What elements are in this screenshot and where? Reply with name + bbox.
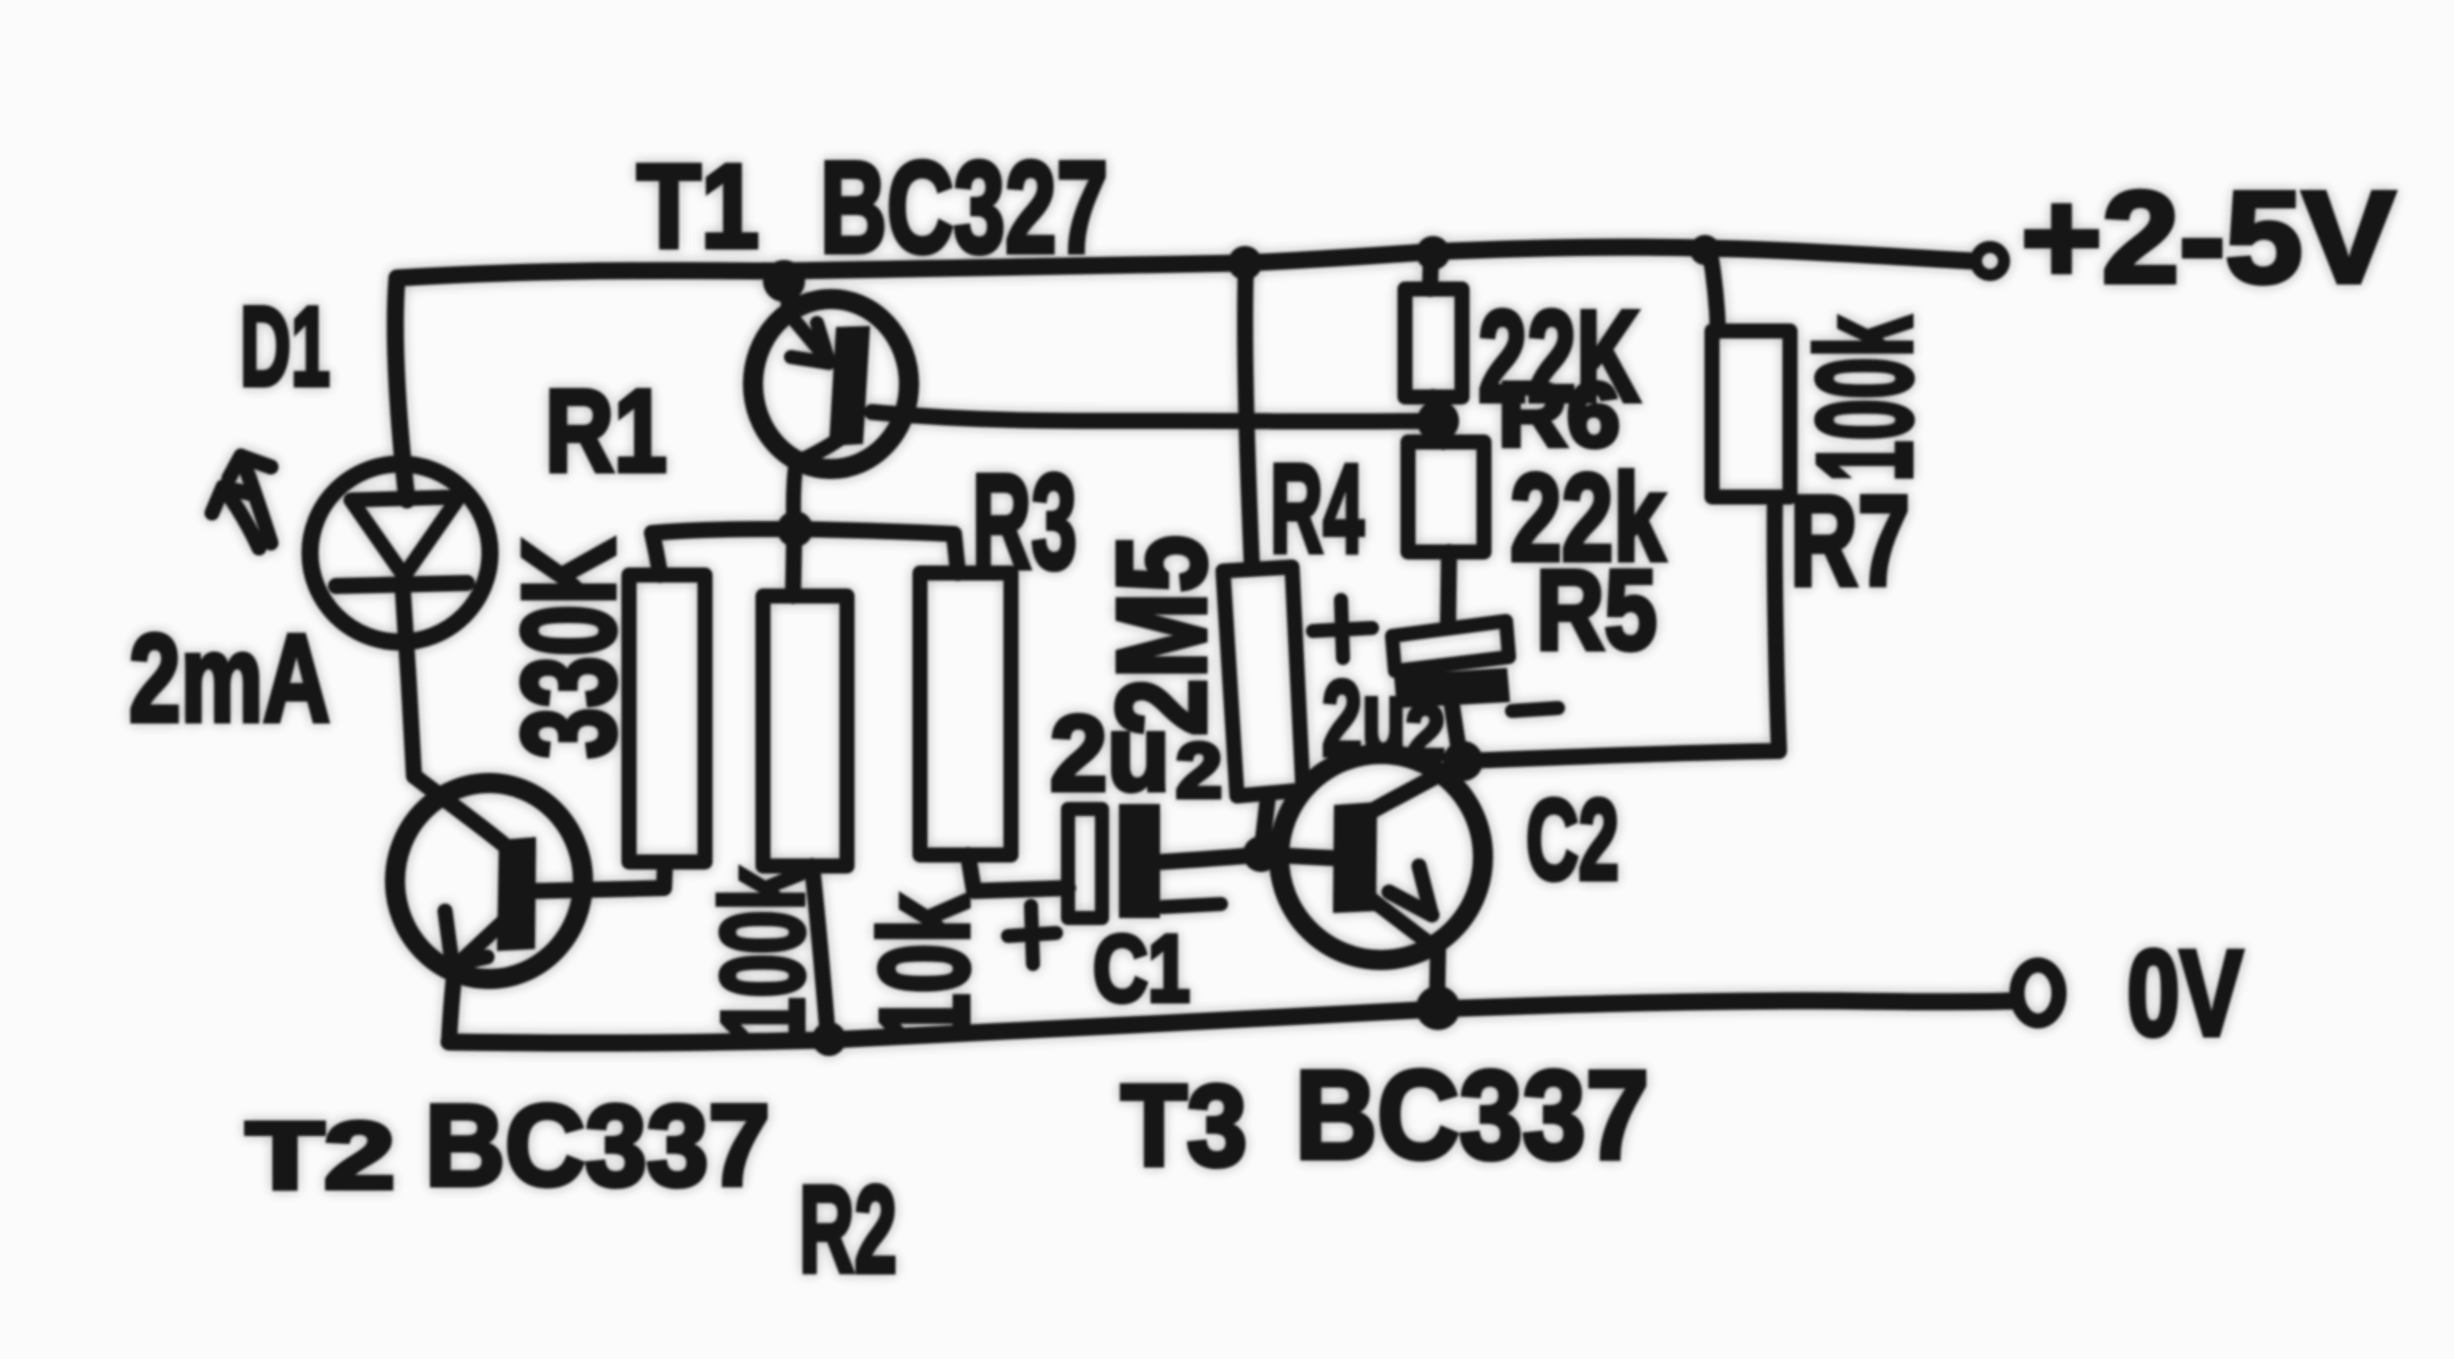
transistor T1 circle [753, 299, 909, 469]
svg-text:+2-5V: +2-5V [2021, 164, 2395, 310]
transistor T3 circle [1279, 754, 1483, 960]
capacitor C1 minus sign [1163, 904, 1221, 907]
LED D1 emission arrow 1 [229, 456, 271, 543]
svg-text:T2: T2 [246, 1103, 395, 1209]
wire collector node to R7 bottom [1463, 498, 1779, 761]
svg-text:C1: C1 [1093, 916, 1190, 1022]
resistor R1 body (330K) [629, 575, 705, 862]
junction dot rail at R7 [1690, 235, 1720, 265]
svg-text:2u: 2u [1322, 658, 1406, 778]
wire C1 to T3 base node [1160, 855, 1260, 862]
svg-text:330K: 330K [495, 538, 642, 759]
svg-text:BC327: BC327 [820, 134, 1108, 280]
svg-text:R1: R1 [545, 365, 667, 496]
transistor T2 collector lead [414, 776, 503, 844]
svg-text:T3: T3 [1121, 1062, 1247, 1190]
wire T1 base to R5/R6 junction [872, 412, 1437, 421]
wire R2 bottom to 0V rail [812, 866, 828, 1038]
svg-text:R4: R4 [1270, 438, 1364, 579]
resistor R3 body (10k) [920, 573, 1011, 855]
transistor T1 emitter arrow (PNP) [791, 316, 829, 363]
resistor R6 body (22k) [1405, 289, 1462, 397]
LED D1 emission arrow 2 [212, 487, 259, 548]
transistor T2 circle [395, 783, 583, 979]
svg-text:R5: R5 [1536, 547, 1657, 673]
svg-text:R3: R3 [972, 446, 1077, 597]
junction dot rail to R6 [1416, 236, 1450, 270]
capacitor C2 minus sign [1512, 708, 1558, 711]
junction dot C2/T3 collector node [1443, 741, 1483, 781]
transistor T3 emitter with arrow [1367, 866, 1438, 950]
wire R7 top to rail [1710, 252, 1718, 331]
capacitor C1 plate + (outline) [1068, 809, 1102, 918]
capacitor C2 plus sign [1313, 600, 1372, 658]
svg-text:BC337: BC337 [425, 1082, 770, 1210]
transistor T1 collector lead [793, 440, 838, 529]
wire bottom 0V rail [449, 1001, 2012, 1043]
transistor T2 base wire to R1 bottom [535, 864, 665, 891]
terminal 0V [2017, 965, 2059, 1021]
svg-text:2mA: 2mA [129, 610, 330, 748]
wire C2 bottom to collector node [1452, 706, 1460, 758]
resistor R7 body (100k) [1712, 331, 1790, 497]
transistor T2 emitter with arrow [445, 911, 504, 965]
wire rail to R6 top [1430, 254, 1431, 289]
svg-text:R7: R7 [1790, 470, 1910, 613]
LED D1 circle [310, 464, 490, 642]
wire resistor-top bus [652, 529, 954, 534]
transistor T3 base bar [1333, 802, 1377, 913]
wire node to R5 top [1440, 422, 1443, 442]
junction dot R2 at 0V rail [812, 1022, 846, 1056]
junction dot rail to R4 [1228, 246, 1262, 280]
transistor T2 emitter lead to 0V rail [449, 967, 455, 1042]
svg-text:100k: 100k [1789, 315, 1940, 482]
wire R6 bottom to node [1433, 397, 1437, 420]
wire left drop from rail to D1 [395, 278, 407, 500]
svg-text:100k: 100k [697, 866, 828, 1041]
resistor R4 body (2M5) [1223, 567, 1303, 796]
svg-text:D1: D1 [240, 284, 330, 409]
junction dot T3 emitter at 0V rail [1416, 986, 1460, 1030]
junction dot R4/C1/T3 base [1243, 836, 1279, 872]
svg-text:0V: 0V [2127, 925, 2243, 1061]
wire D1 cathode to T2 collector [403, 593, 414, 776]
junction dot R6/R5/T1-base node [1417, 400, 1459, 442]
svg-text:C2: C2 [1526, 777, 1619, 904]
transistor T3 collector lead [1370, 763, 1460, 812]
wire top supply rail [397, 247, 1972, 278]
capacitor C2 plate - (filled) [1394, 668, 1510, 708]
terminal +2-5V [1976, 247, 2004, 275]
LED D1 cathode bar [336, 583, 467, 586]
wire bus to R1 top [652, 533, 660, 575]
capacitor C2 plate + (outline) [1392, 621, 1509, 671]
svg-text:10k: 10k [854, 893, 995, 1043]
svg-text:T1: T1 [637, 140, 759, 273]
wire R3 bottom to C1 [968, 855, 1068, 891]
LED D1 triangle [351, 497, 459, 576]
wire R5 bottom to C2 top [1448, 552, 1449, 624]
wire R4 bottom to T3 base node [1262, 796, 1268, 848]
resistor R2 body (100k) [763, 596, 847, 866]
transistor T2 base bar [497, 837, 536, 951]
transistor T1 base bar [829, 326, 870, 446]
transistor T3 base wire [1261, 854, 1332, 858]
wire bus to R3 top [954, 534, 958, 573]
svg-text:BC337: BC337 [1295, 1046, 1649, 1185]
svg-text:2: 2 [1176, 728, 1222, 814]
transistor T1 emitter lead [786, 281, 791, 316]
junction dot T1 collector node [777, 511, 813, 547]
svg-text:R2: R2 [799, 1162, 897, 1299]
wire rail to R4 top [1245, 264, 1252, 568]
transistor T3 emitter lead to 0V rail [1437, 950, 1438, 1002]
capacitor C1 plate - (filled) [1119, 804, 1160, 918]
svg-text:2u: 2u [1050, 693, 1170, 813]
svg-text:2: 2 [1406, 690, 1445, 776]
junction dot T1 emitter at rail [763, 260, 805, 302]
resistor R5 body (22k) [1408, 442, 1484, 552]
wire bus to R2 top [793, 546, 794, 596]
capacitor C1 plus sign [1008, 906, 1056, 964]
